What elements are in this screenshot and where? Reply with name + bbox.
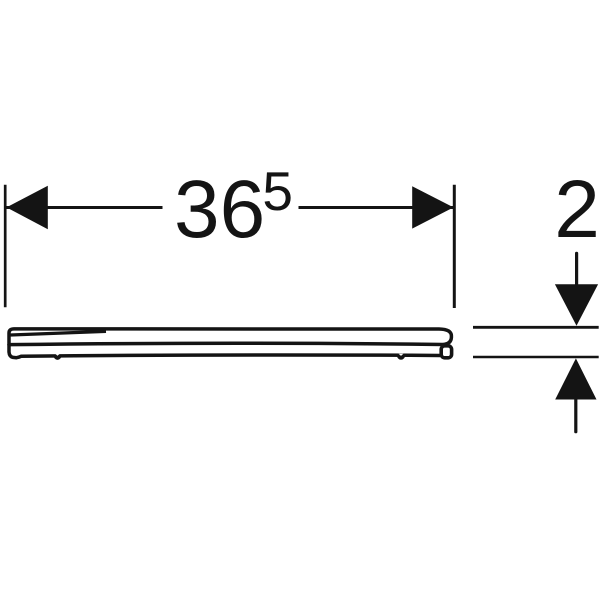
- leader line lower (2 dim): [574, 397, 577, 432]
- lid profile: right end cap: [441, 346, 451, 358]
- leader line upper (2 dim): [575, 253, 578, 290]
- lid profile: buffer bump right: [397, 355, 405, 360]
- extension line right (36.5 dim): [453, 185, 456, 308]
- lid profile: buffer bump right notch: [399, 354, 404, 356]
- svg-text:36: 36: [174, 164, 265, 255]
- lid profile: lower slab (left edge, foot, bottom edge): [9, 344, 440, 358]
- lid profile: upper slab outline (top surface, right curl, middle seam): [9, 329, 451, 345]
- svg-text:2: 2: [554, 164, 600, 255]
- lid profile: buffer bump left notch: [55, 354, 60, 356]
- arrowhead down (2 dim): [555, 284, 598, 326]
- dimension line 36.5 right segment: [299, 206, 454, 209]
- arrowhead right (points right): [412, 186, 453, 228]
- arrowhead left (points left): [7, 186, 48, 230]
- extension line lower (2 dim): [473, 356, 599, 359]
- extension line upper (2 dim): [473, 326, 599, 329]
- arrowhead up (2 dim): [555, 358, 596, 399]
- extension line left (36.5 dim): [4, 185, 7, 307]
- lid profile: buffer bump left: [53, 355, 61, 360]
- svg-text:5: 5: [262, 160, 293, 222]
- lid profile: inner seam line top-left: [11, 331, 107, 335]
- dimension line 36.5 left segment: [7, 206, 163, 209]
